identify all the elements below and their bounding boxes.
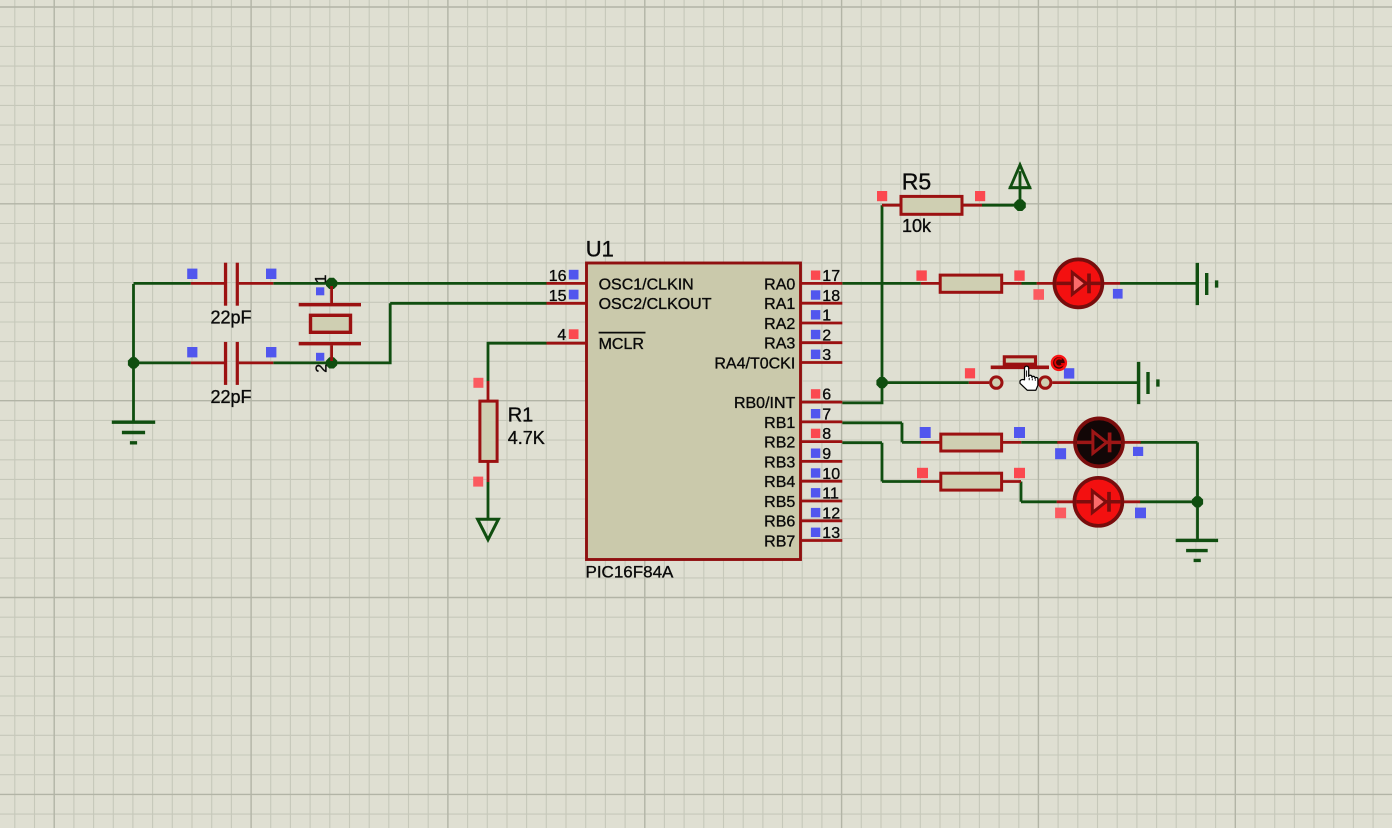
svg-text:4.7K: 4.7K [508,428,545,448]
resistor R1 4.7K (vertical) [473,378,497,487]
node junction RB0 / button branch [876,377,887,388]
U1 pin 16 OSC1/CLKIN stub [547,282,587,285]
wire junction down to ground [1196,502,1199,540]
node junction LED rail / ground [1192,496,1203,507]
svg-text:7: 7 [822,407,831,424]
resistor R2 (RA0 series) [916,270,1024,292]
node XTAL pin1 junction [326,278,337,289]
wire left rail vertical to ground [132,284,135,421]
wire R2 to LED D1 anode [1022,282,1037,285]
svg-text:11: 11 [822,486,839,503]
svg-text:10k: 10k [902,216,932,236]
svg-text:RB5: RB5 [764,494,795,511]
svg-text:RB0/INT: RB0/INT [734,395,796,412]
U1 pin 17 stub [801,282,843,285]
wire LED D1 cathode to ground [1120,282,1196,285]
svg-text:18: 18 [822,288,840,305]
svg-text:OSC2/CLKOUT: OSC2/CLKOUT [599,296,712,313]
svg-text:9: 9 [822,446,831,463]
resistor R3 (RB1 series) [920,427,1025,451]
svg-text:PIC16F84A: PIC16F84A [586,563,675,582]
svg-text:10: 10 [822,466,840,483]
svg-text:8: 8 [822,426,831,443]
svg-text:MCLR: MCLR [599,336,644,353]
U1 pin 18 stub [801,302,843,305]
U1 pin 11 stub [801,500,843,503]
svg-text:17: 17 [822,268,840,285]
U1 pin 2 stub [801,341,843,344]
svg-text:R5: R5 [902,169,931,195]
wire R5 right pin to power node [982,204,1020,207]
svg-text:6: 6 [822,387,831,404]
svg-text:R1: R1 [508,405,534,427]
svg-text:RB7: RB7 [764,533,795,550]
U1 pin 15 OSC2/CLKOUT stub [547,302,587,305]
U1 pin 12 stub [801,519,843,522]
svg-text:1: 1 [822,308,831,325]
resistor R4 (RB2 series) [917,468,1025,490]
svg-text:RA1: RA1 [764,296,795,313]
ground GND bottom right [1176,540,1218,560]
svg-text:OSC1/CLKIN: OSC1/CLKIN [599,276,694,293]
wire button right pin to ground [1070,381,1137,384]
svg-text:RA2: RA2 [764,316,795,333]
svg-text:16: 16 [549,268,567,285]
power symbol VCC (up arrow) [1009,165,1031,205]
svg-text:U1: U1 [586,237,614,262]
wire U1 pin7 RB1 to R3 [842,423,921,443]
svg-text:RA4/T0CKI: RA4/T0CKI [714,355,795,372]
svg-text:RB6: RB6 [764,514,795,531]
U1 pin 13 stub [801,539,843,542]
wire OSC2 net: XTAL pin2 node to U1 pin15 [332,303,547,364]
wire U1 pin17 RA0 to R2 [842,282,921,285]
ground GND at button (rotated) [1139,362,1158,404]
wire C2 left to left rail [134,361,191,364]
wire U1 pin8 RB2 to R4 [842,443,921,482]
wire MCLR net: U1 pin4 to R1 top [487,342,547,381]
wire R1 bottom to ground arrow [487,482,490,520]
U1 pin 10 stub [801,480,843,483]
node XTAL pin2 junction [326,357,337,368]
wire cap C1 left to left rail [134,282,191,285]
LED D1 (red, lit) [1037,259,1120,307]
svg-text:4: 4 [557,327,566,344]
svg-text:RB1: RB1 [764,415,795,432]
svg-text:22pF: 22pF [211,308,252,328]
push button SW1 [965,357,1074,389]
svg-text:2: 2 [313,364,330,373]
ground arrow (below R1) [478,519,499,540]
op-amp U1 PIC16F84A body [587,263,801,560]
svg-text:12: 12 [822,505,840,522]
node junction R5 / power symbol [1014,199,1026,211]
ground GND at LED D1 (rotated) [1197,263,1216,305]
svg-text:RB4: RB4 [764,474,795,491]
svg-text:RB2: RB2 [764,435,795,452]
svg-text:13: 13 [822,525,840,542]
svg-text:RB3: RB3 [764,454,795,471]
U1 pin 3 stub [801,361,843,364]
ground GND left (below capacitors) [112,422,155,443]
U1 pin 7 stub [801,420,843,423]
svg-text:RA3: RA3 [764,336,795,353]
wire LED D3 cathode to bottom ground rail [1140,500,1198,503]
capacitor C1 22pF (top) [187,263,276,306]
button toggle indicator [1052,356,1066,370]
node junction left rail / C2 [128,357,139,368]
U1 pin 9 stub [801,460,843,463]
resistor R5 10k (horizontal top) [877,191,985,214]
wire OSC1 net: C1 right through XTAL pin1 node to U1 pin16 [273,282,546,285]
mouse cursor (hand pointer) [1020,366,1038,390]
wire RB0 net vertical: R5 to U1 pin6 [842,205,883,403]
LED D3 (red, lit) [1057,478,1140,526]
svg-text:15: 15 [549,288,567,305]
U1 pin 4 MCLR stub [547,342,587,345]
svg-text:RA0: RA0 [764,276,795,293]
LED D2 (red, off) [1057,418,1140,466]
svg-text:1: 1 [313,275,330,284]
wire LED D2 cathode to bottom ground rail [1140,442,1198,501]
wire junction to button left pin [882,381,969,384]
wire C2 right to XTAL pin2 node [273,361,331,364]
capacitor C2 22pF (bottom) [187,342,276,385]
wire R4 to LED D3 anode [1020,482,1057,502]
wire R3 to LED D2 anode [1021,441,1058,444]
U1 pin 1 stub [801,322,843,325]
crystal X1 [299,286,361,361]
U1 pin 8 stub [801,440,843,443]
svg-text:3: 3 [822,347,831,364]
svg-text:22pF: 22pF [211,387,252,407]
svg-text:2: 2 [822,327,831,344]
U1 pin 6 stub [801,401,843,404]
